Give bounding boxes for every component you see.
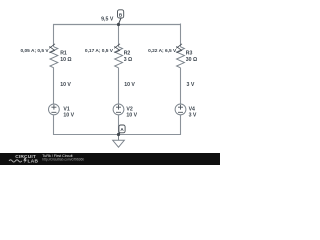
wire left branch lower bbox=[53, 115, 55, 135]
wire middle branch middle bbox=[118, 68, 120, 104]
svg-text:10 V: 10 V bbox=[124, 82, 135, 88]
svg-text:0,22 A; 6,5 V: 0,22 A; 6,5 V bbox=[148, 48, 177, 54]
wire right branch upper bbox=[180, 24, 182, 47]
wire bottom rail bbox=[53, 134, 181, 136]
R3 annotation arrow bbox=[176, 44, 182, 53]
wire top rail bbox=[53, 24, 181, 26]
junction node A dot bbox=[117, 133, 120, 136]
wire middle branch upper bbox=[118, 24, 120, 47]
svg-text:LAB: LAB bbox=[28, 158, 39, 164]
resistor R2 bbox=[115, 47, 123, 68]
voltage source V4 bbox=[175, 104, 186, 115]
footer bar bbox=[0, 153, 220, 165]
wire middle branch lower bbox=[118, 115, 120, 135]
resistor R3 bbox=[177, 47, 185, 68]
svg-text:10 V: 10 V bbox=[63, 112, 74, 118]
svg-text:9,5 V: 9,5 V bbox=[101, 17, 114, 23]
ground bbox=[113, 135, 125, 148]
svg-text:30 Ω: 30 Ω bbox=[186, 57, 197, 63]
wire right branch middle bbox=[180, 68, 182, 104]
svg-text:10 Ω: 10 Ω bbox=[60, 57, 71, 63]
node B flag bbox=[118, 10, 124, 24]
svg-text:R3: R3 bbox=[186, 51, 193, 57]
wire left branch middle bbox=[53, 68, 55, 104]
svg-text:3 V: 3 V bbox=[187, 82, 195, 88]
svg-text:0,05 A; 0,5 V: 0,05 A; 0,5 V bbox=[21, 48, 50, 54]
svg-text:3 V: 3 V bbox=[189, 112, 197, 118]
svg-text:R2: R2 bbox=[124, 51, 131, 57]
resistor R1 bbox=[50, 47, 58, 68]
svg-text:0,17 A; 0,5 V: 0,17 A; 0,5 V bbox=[85, 48, 114, 54]
svg-text:10 V: 10 V bbox=[60, 82, 71, 88]
node A flag bbox=[119, 125, 126, 134]
svg-text:http://circuitlab.com/c/f9636b: http://circuitlab.com/c/f9636b bbox=[42, 157, 84, 161]
svg-text:R1: R1 bbox=[60, 51, 67, 57]
svg-text:3 Ω: 3 Ω bbox=[124, 57, 133, 63]
footer CircuitLab logo bbox=[9, 154, 38, 164]
wire right branch lower bbox=[180, 115, 182, 135]
voltage source V2 bbox=[113, 104, 124, 115]
R2 annotation arrow bbox=[114, 44, 120, 53]
svg-text:10 V: 10 V bbox=[126, 112, 137, 118]
wire left branch upper bbox=[53, 24, 55, 47]
R1 annotation arrow bbox=[49, 44, 55, 53]
junction node B dot bbox=[117, 23, 120, 26]
voltage source V1 bbox=[49, 104, 60, 115]
